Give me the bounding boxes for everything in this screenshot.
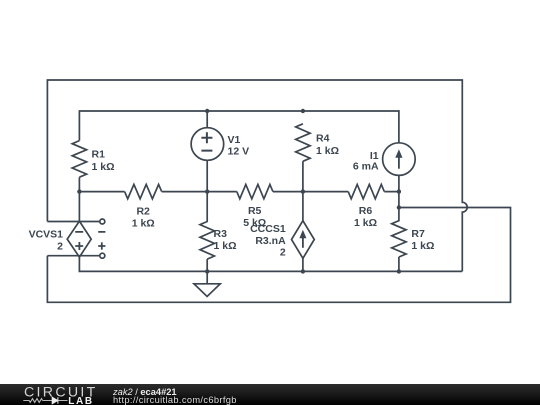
dependent source VCVS1 (diamond) xyxy=(67,221,91,257)
label R2 xyxy=(132,205,155,229)
svg-text:R2: R2 xyxy=(136,205,150,217)
CircuitLab logo resistor-diode glyph xyxy=(23,397,67,403)
dependent source CCCS1 (diamond with arrow) xyxy=(292,192,315,272)
wire: VCVS top lead from middle net xyxy=(78,192,80,222)
svg-text:2: 2 xyxy=(280,246,286,258)
label R7 xyxy=(411,228,434,252)
node: R7 bottom junction xyxy=(397,269,401,273)
resistor R4 xyxy=(296,124,310,192)
label R4 xyxy=(316,133,339,157)
svg-text:1 kΩ: 1 kΩ xyxy=(132,218,155,230)
voltage source V1 xyxy=(191,111,224,192)
svg-text:R1: R1 xyxy=(92,149,106,161)
VCVS1 control terminal + (circle) xyxy=(100,253,105,258)
svg-text:R5: R5 xyxy=(248,205,262,217)
label I1 xyxy=(353,150,379,173)
resistor R6 xyxy=(348,184,384,198)
svg-text:http://circuitlab.com/c6brfgb: http://circuitlab.com/c6brfgb xyxy=(113,395,237,405)
current source I1 xyxy=(383,143,416,192)
label R3 xyxy=(214,228,237,252)
svg-text:R3.nA: R3.nA xyxy=(255,235,286,247)
svg-text:V1: V1 xyxy=(228,134,241,146)
node: R4 top junction xyxy=(301,109,305,113)
resistor R2 xyxy=(125,184,162,198)
node D2 (R7 top / feedback) xyxy=(397,205,401,209)
wire: outer sense loop (left edge, top edge, right edge with hop) xyxy=(47,80,467,271)
svg-text:12 V: 12 V xyxy=(228,145,250,157)
label VCVS1 xyxy=(29,229,64,253)
VCVS1 control terminal - (circle) xyxy=(100,219,105,224)
node: CCCS bottom junction xyxy=(301,269,305,273)
label R1 xyxy=(92,149,115,173)
node C (R4/CCCS/R5/R6) xyxy=(301,189,305,193)
node D (I1-/R6) xyxy=(397,189,401,193)
wire: VCVS control stubs on left xyxy=(47,222,99,256)
node B (V1-/R3/R2/R5) xyxy=(205,189,209,193)
svg-text:CCCS1: CCCS1 xyxy=(250,223,286,235)
resistor R3 xyxy=(200,192,214,272)
VCVS1 control polarity marks xyxy=(98,232,105,250)
label V1 xyxy=(228,134,250,158)
svg-text:1 kΩ: 1 kΩ xyxy=(316,145,339,157)
svg-text:2: 2 xyxy=(57,241,63,253)
label CCCS1 xyxy=(250,223,286,258)
svg-text:1 kΩ: 1 kΩ xyxy=(411,240,434,252)
ground symbol xyxy=(194,271,220,296)
svg-text:R4: R4 xyxy=(316,133,330,145)
resistor R7 xyxy=(392,208,406,272)
resistor R1 xyxy=(72,141,86,192)
wire: feedback net from node D down and around right/bottom to VCVS control + xyxy=(47,192,510,303)
wire: bottom net (VCVS output - along to right edge) xyxy=(79,257,462,271)
svg-text:R3: R3 xyxy=(214,228,228,240)
footer bar xyxy=(0,384,540,405)
svg-text:1 kΩ: 1 kΩ xyxy=(214,240,237,252)
resistor R5 xyxy=(237,184,273,198)
svg-text:6 mA: 6 mA xyxy=(353,160,379,172)
node: ground junction xyxy=(205,269,209,273)
wire: middle net segments between resistors R2 R5 R6 xyxy=(79,191,399,193)
svg-text:VCVS1: VCVS1 xyxy=(29,229,64,241)
svg-text:R6: R6 xyxy=(359,205,373,217)
svg-text:1 kΩ: 1 kΩ xyxy=(92,161,115,173)
svg-text:LAB: LAB xyxy=(68,396,93,405)
node A (R1/VCVS/R2) xyxy=(77,189,81,193)
svg-text:1 kΩ: 1 kΩ xyxy=(354,217,377,229)
node: V1 top junction xyxy=(205,109,209,113)
svg-text:R7: R7 xyxy=(411,228,425,240)
label R6 xyxy=(354,205,377,229)
label R5 xyxy=(243,205,266,229)
wire: top net (R1 top to V1, R4, I1 tops) xyxy=(79,111,399,143)
